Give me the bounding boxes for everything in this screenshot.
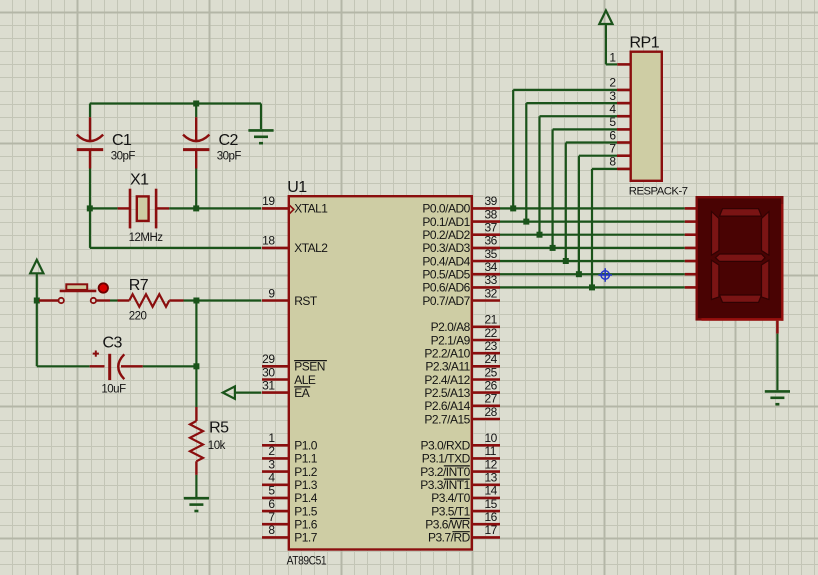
svg-text:P0.7/AD7: P0.7/AD7 [422,294,470,308]
svg-text:15: 15 [485,497,498,511]
svg-text:10: 10 [485,431,498,445]
svg-text:38: 38 [485,207,498,221]
svg-text:12MHz: 12MHz [129,232,164,244]
svg-text:21: 21 [485,313,498,327]
svg-text:RESPACK-7: RESPACK-7 [629,185,688,197]
svg-text:34: 34 [485,260,498,274]
svg-text:ALE: ALE [294,373,316,387]
svg-text:EA: EA [294,386,310,400]
svg-text:6: 6 [268,497,275,511]
svg-text:18: 18 [262,234,275,248]
svg-text:10k: 10k [208,440,226,452]
svg-text:P1.3: P1.3 [294,478,318,492]
svg-text:12: 12 [485,457,498,471]
svg-text:X1: X1 [130,171,149,188]
svg-text:3: 3 [268,457,275,471]
svg-text:C3: C3 [103,335,123,352]
svg-text:P2.4/A12: P2.4/A12 [424,373,470,387]
svg-text:RP1: RP1 [630,34,660,51]
svg-text:P1.2: P1.2 [294,465,318,479]
svg-text:P3.1/TXD: P3.1/TXD [422,452,471,466]
svg-text:P0.5/AD5: P0.5/AD5 [422,268,470,282]
svg-text:29: 29 [262,352,275,366]
svg-text:35: 35 [485,247,498,261]
svg-text:37: 37 [485,221,498,235]
svg-text:P3.0/RXD: P3.0/RXD [420,439,470,453]
svg-text:9: 9 [268,286,275,300]
svg-text:1: 1 [268,431,275,445]
svg-text:P2.6/A14: P2.6/A14 [424,399,470,413]
svg-text:P0.3/AD3: P0.3/AD3 [422,241,470,255]
svg-text:24: 24 [485,352,498,366]
svg-text:30: 30 [262,365,275,379]
svg-text:2: 2 [268,444,275,458]
svg-text:P3.2/INT0: P3.2/INT0 [420,465,470,479]
svg-text:4: 4 [268,471,275,485]
svg-text:16: 16 [485,510,498,524]
svg-text:RST: RST [294,294,318,308]
svg-text:P3.5/T1: P3.5/T1 [431,504,470,518]
svg-text:P2.0/A8: P2.0/A8 [431,320,471,334]
svg-text:P3.4/T0: P3.4/T0 [431,491,470,505]
svg-text:PSEN: PSEN [294,360,325,374]
svg-text:P1.7: P1.7 [294,531,318,545]
svg-text:U1: U1 [287,179,307,196]
svg-text:P2.1/A9: P2.1/A9 [431,333,471,347]
svg-text:11: 11 [485,444,497,458]
svg-text:1: 1 [609,50,616,64]
svg-text:C1: C1 [112,132,132,149]
svg-text:30pF: 30pF [111,150,136,162]
svg-text:5: 5 [268,484,275,498]
svg-text:P2.3/A11: P2.3/A11 [425,360,470,374]
svg-text:P0.6/AD6: P0.6/AD6 [422,281,470,295]
svg-text:8: 8 [609,155,616,169]
svg-text:14: 14 [485,484,498,498]
svg-text:17: 17 [485,523,498,537]
svg-text:P1.6: P1.6 [294,518,318,532]
svg-text:23: 23 [485,339,498,353]
svg-text:31: 31 [262,378,275,392]
svg-text:220: 220 [129,311,147,323]
svg-text:22: 22 [485,326,498,340]
svg-text:25: 25 [485,365,498,379]
svg-text:AT89C51: AT89C51 [287,553,327,567]
svg-text:13: 13 [485,471,498,485]
svg-text:28: 28 [485,405,498,419]
svg-text:P1.4: P1.4 [294,491,318,505]
svg-text:P1.5: P1.5 [294,504,318,518]
svg-text:7: 7 [609,142,616,156]
svg-text:33: 33 [485,273,498,287]
svg-text:P1.0: P1.0 [294,439,318,453]
svg-text:7: 7 [268,510,275,524]
svg-text:P2.7/A15: P2.7/A15 [424,412,470,426]
svg-text:P0.4/AD4: P0.4/AD4 [422,254,470,268]
svg-text:8: 8 [268,523,275,537]
svg-text:XTAL1: XTAL1 [294,202,328,216]
svg-text:32: 32 [485,286,498,300]
svg-text:2: 2 [609,76,616,90]
svg-text:P1.1: P1.1 [294,452,318,466]
svg-text:27: 27 [485,392,498,406]
svg-text:39: 39 [485,194,498,208]
svg-text:36: 36 [485,234,498,248]
svg-text:C2: C2 [219,132,239,149]
svg-text:P0.1/AD1: P0.1/AD1 [422,215,470,229]
svg-text:P3.6/WR: P3.6/WR [425,518,470,532]
svg-text:19: 19 [262,194,275,208]
svg-text:R5: R5 [209,419,229,436]
svg-text:30pF: 30pF [217,150,242,162]
svg-text:R7: R7 [129,277,149,294]
svg-text:P0.2/AD2: P0.2/AD2 [422,228,470,242]
svg-text:P0.0/AD0: P0.0/AD0 [422,202,470,216]
svg-text:XTAL2: XTAL2 [294,241,328,255]
svg-text:26: 26 [485,378,498,392]
svg-text:P2.5/A13: P2.5/A13 [424,386,470,400]
svg-text:P3.7/RD: P3.7/RD [428,531,471,545]
svg-text:P2.2/A10: P2.2/A10 [424,347,470,361]
svg-text:P3.3/INT1: P3.3/INT1 [420,478,470,492]
svg-text:10uF: 10uF [101,384,126,396]
